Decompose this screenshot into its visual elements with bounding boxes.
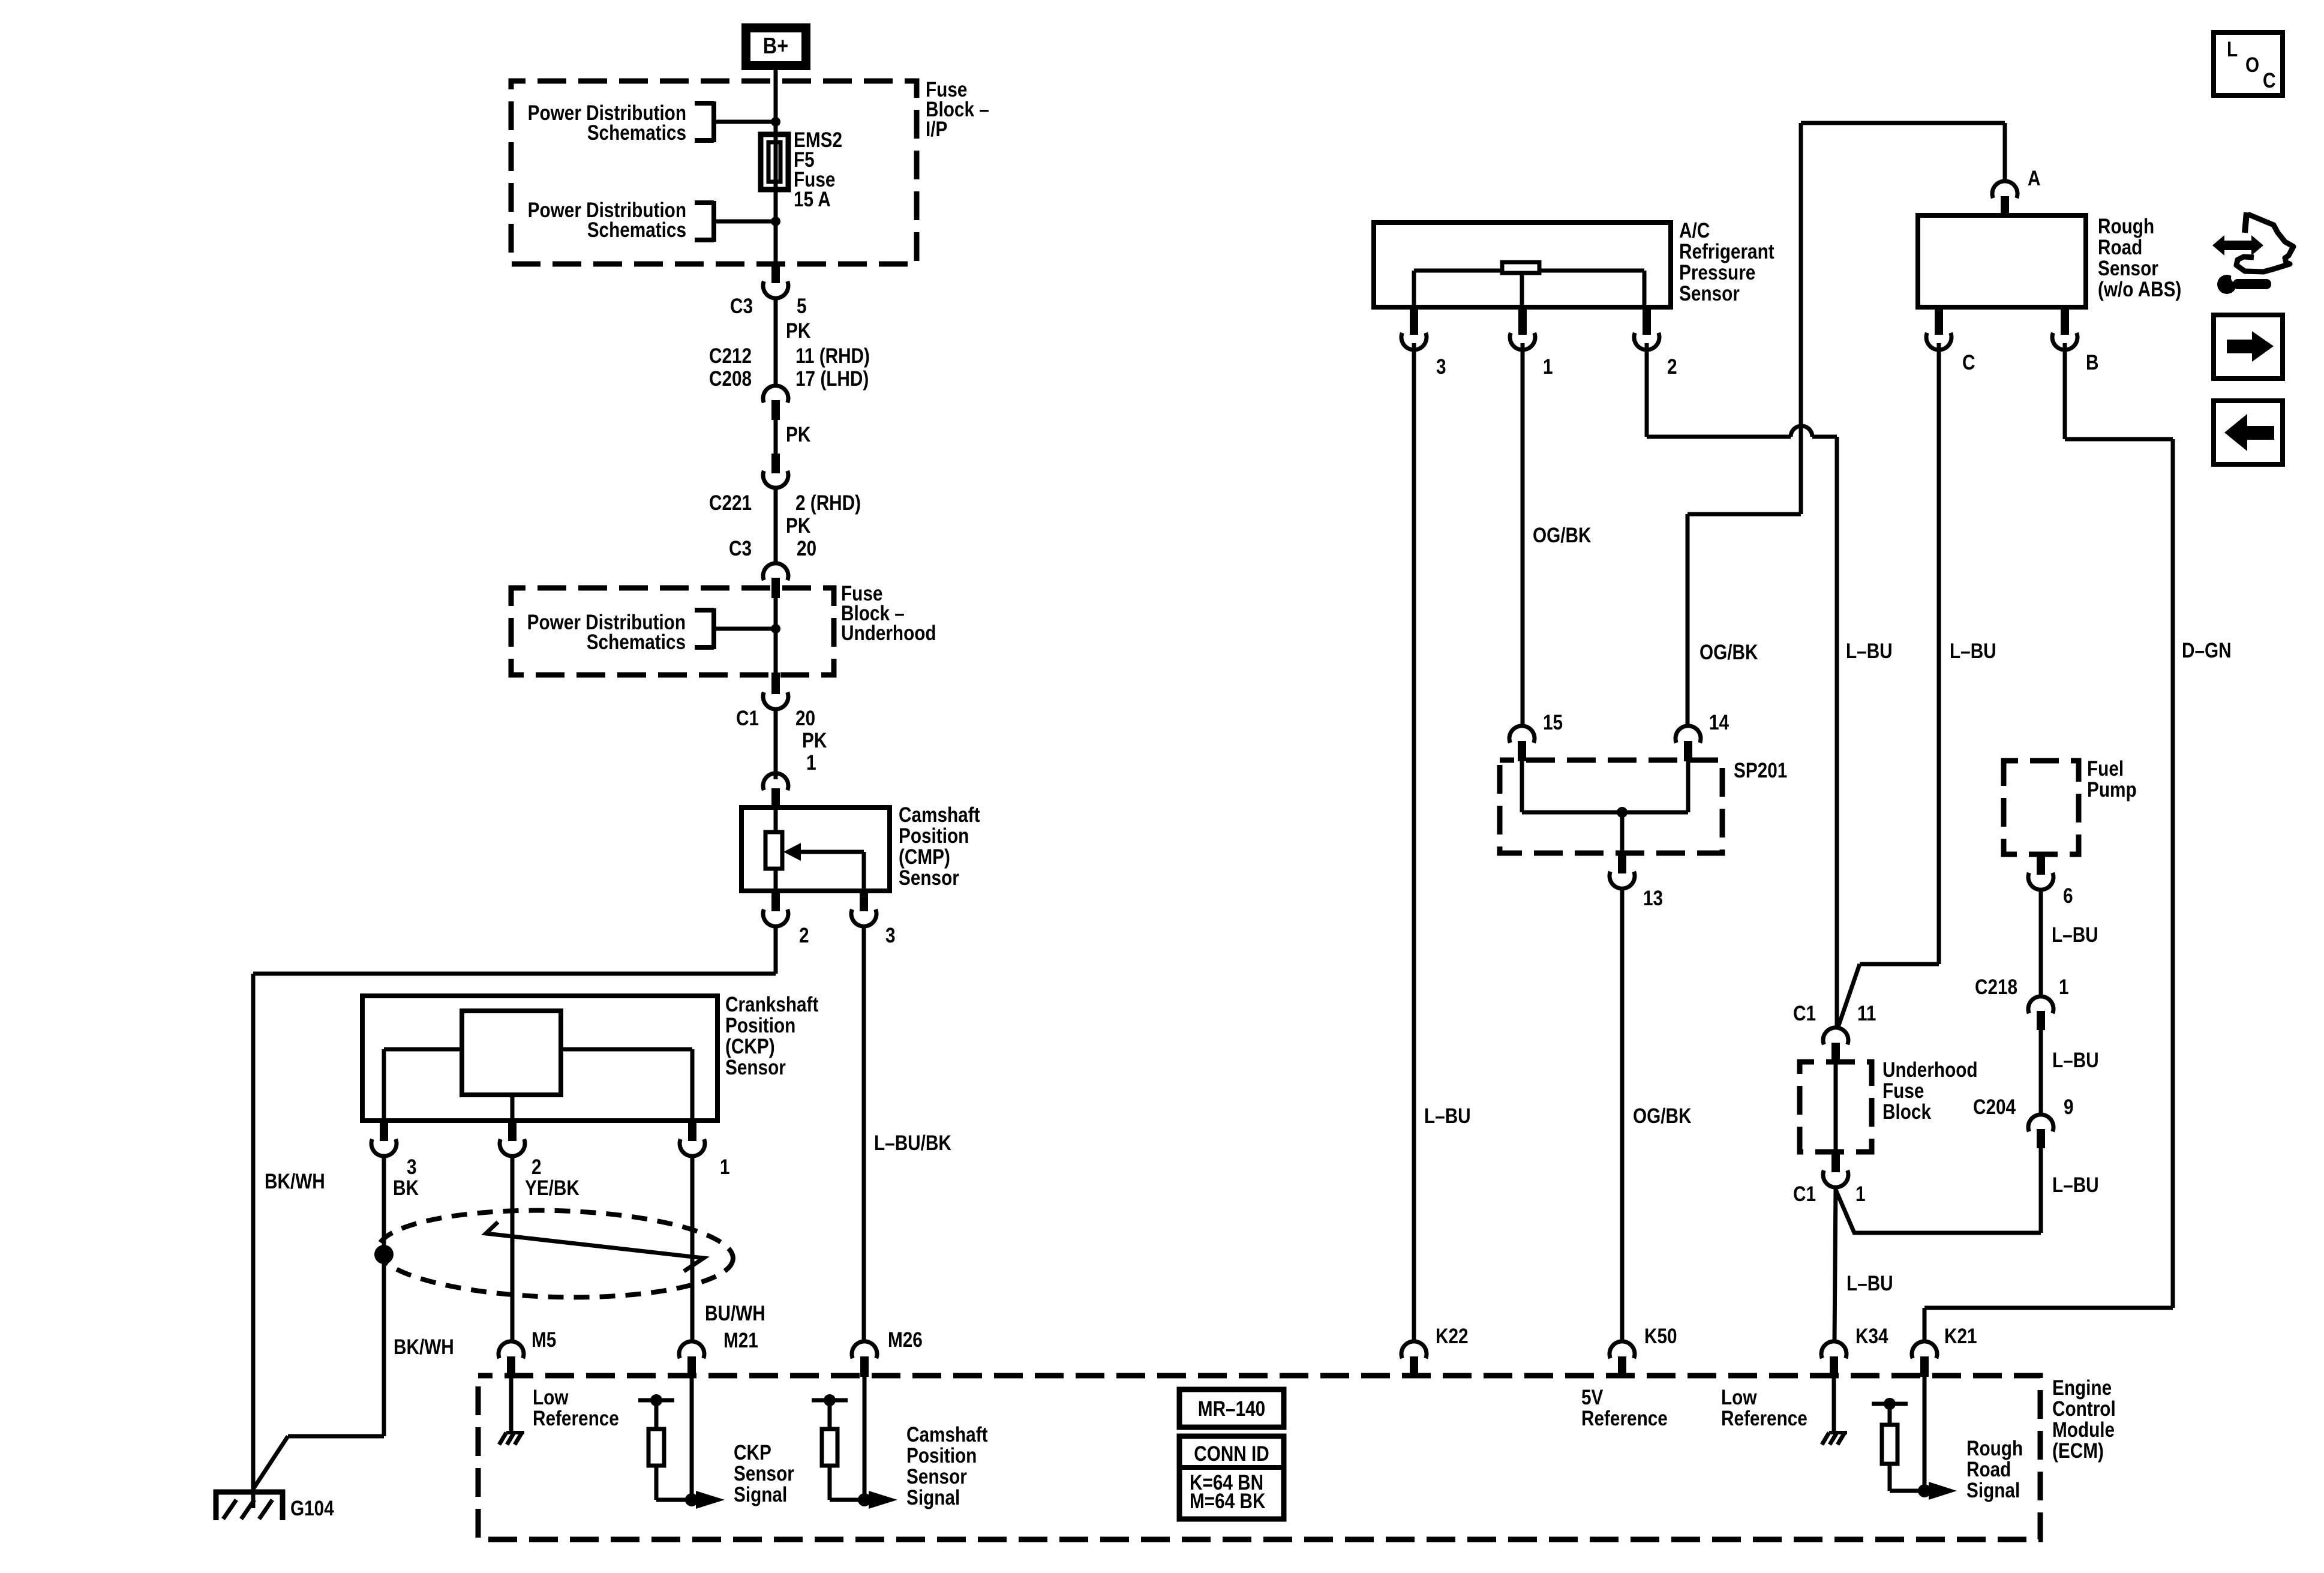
- svg-text:Pump: Pump: [2087, 778, 2137, 801]
- svg-text:Road: Road: [2098, 236, 2142, 259]
- svg-text:Fuse: Fuse: [1882, 1079, 1924, 1103]
- svg-text:G104: G104: [290, 1497, 334, 1520]
- svg-text:1: 1: [806, 751, 816, 775]
- svg-text:K21: K21: [1944, 1325, 1977, 1348]
- svg-text:B: B: [2086, 351, 2098, 374]
- svg-text:Rough: Rough: [1966, 1437, 2023, 1460]
- svg-text:Signal: Signal: [1966, 1479, 2020, 1502]
- svg-text:Refrigerant: Refrigerant: [1679, 240, 1774, 263]
- svg-text:Schematics: Schematics: [587, 218, 686, 242]
- svg-text:O: O: [2245, 53, 2259, 77]
- svg-text:D–GN: D–GN: [2182, 639, 2232, 662]
- svg-text:PK: PK: [802, 729, 827, 752]
- svg-text:Sensor: Sensor: [2098, 257, 2158, 280]
- svg-text:Sensor: Sensor: [899, 866, 959, 890]
- svg-text:Fuel: Fuel: [2087, 757, 2124, 781]
- svg-text:Module: Module: [2052, 1418, 2115, 1442]
- svg-text:C1: C1: [1793, 1182, 1816, 1206]
- svg-text:A/C: A/C: [1679, 219, 1710, 242]
- svg-text:L–BU/BK: L–BU/BK: [874, 1131, 951, 1155]
- svg-text:Road: Road: [1966, 1458, 2011, 1481]
- svg-text:L–BU: L–BU: [2052, 1049, 2099, 1072]
- svg-text:L–BU: L–BU: [2052, 923, 2098, 947]
- svg-text:Schematics: Schematics: [587, 121, 686, 145]
- svg-text:L–BU: L–BU: [1846, 1272, 1893, 1295]
- svg-text:C1: C1: [1793, 1002, 1816, 1025]
- svg-text:11 (RHD): 11 (RHD): [795, 344, 870, 368]
- svg-text:2: 2: [1667, 355, 1677, 379]
- svg-text:9: 9: [2064, 1095, 2074, 1119]
- svg-text:5: 5: [797, 295, 807, 318]
- svg-text:2: 2: [799, 924, 809, 947]
- svg-text:C3: C3: [730, 295, 753, 318]
- svg-text:Crankshaft: Crankshaft: [725, 993, 819, 1016]
- svg-text:Reference: Reference: [1581, 1407, 1668, 1430]
- svg-text:Underhood: Underhood: [1882, 1058, 1978, 1082]
- svg-text:K50: K50: [1644, 1325, 1677, 1348]
- svg-text:L: L: [2227, 38, 2238, 61]
- svg-text:1: 1: [720, 1155, 730, 1179]
- svg-text:Reference: Reference: [533, 1407, 619, 1430]
- svg-text:BK/WH: BK/WH: [265, 1170, 325, 1193]
- svg-text:MR–140: MR–140: [1198, 1397, 1265, 1421]
- svg-text:M5: M5: [532, 1328, 556, 1352]
- svg-text:Low: Low: [1721, 1386, 1757, 1409]
- svg-text:C212: C212: [709, 344, 752, 368]
- svg-text:I/P: I/P: [926, 118, 947, 141]
- svg-text:L–BU: L–BU: [1424, 1104, 1471, 1128]
- svg-text:B+: B+: [763, 34, 788, 59]
- svg-text:OG/BK: OG/BK: [1533, 524, 1592, 547]
- svg-text:Position: Position: [725, 1014, 795, 1037]
- svg-text:C218: C218: [1975, 975, 2017, 999]
- svg-text:C1: C1: [736, 707, 759, 730]
- svg-text:PK: PK: [786, 319, 811, 343]
- svg-text:20: 20: [797, 537, 816, 560]
- svg-text:Rough: Rough: [2098, 215, 2154, 238]
- svg-text:Signal: Signal: [734, 1483, 787, 1506]
- svg-text:OG/BK: OG/BK: [1700, 641, 1758, 664]
- svg-text:Sensor: Sensor: [1679, 282, 1740, 305]
- svg-text:C: C: [1962, 351, 1975, 374]
- svg-text:3: 3: [1436, 355, 1446, 379]
- svg-text:1: 1: [2059, 975, 2069, 999]
- svg-text:20: 20: [795, 707, 815, 730]
- svg-text:Position: Position: [906, 1444, 977, 1467]
- svg-text:Sensor: Sensor: [906, 1465, 967, 1488]
- svg-text:Control: Control: [2052, 1397, 2116, 1421]
- svg-text:Low: Low: [533, 1386, 569, 1409]
- svg-text:L–BU: L–BU: [2052, 1173, 2099, 1197]
- svg-text:C204: C204: [1973, 1095, 2016, 1119]
- svg-text:13: 13: [1643, 887, 1663, 910]
- svg-text:Engine: Engine: [2052, 1376, 2112, 1400]
- svg-text:Signal: Signal: [906, 1486, 960, 1509]
- svg-text:(ECM): (ECM): [2052, 1439, 2104, 1463]
- svg-text:C3: C3: [729, 537, 752, 560]
- svg-text:Camshaft: Camshaft: [906, 1423, 988, 1446]
- svg-text:PK: PK: [786, 514, 811, 538]
- svg-text:C: C: [2263, 69, 2275, 92]
- svg-text:BK/WH: BK/WH: [394, 1335, 454, 1359]
- svg-text:YE/BK: YE/BK: [525, 1176, 580, 1200]
- svg-text:Block: Block: [1882, 1100, 1932, 1124]
- svg-text:2: 2: [532, 1155, 542, 1179]
- svg-text:3: 3: [885, 924, 896, 947]
- svg-text:Pressure: Pressure: [1679, 261, 1755, 284]
- svg-text:15 A: 15 A: [794, 188, 831, 211]
- svg-text:CKP: CKP: [734, 1441, 771, 1464]
- svg-text:M21: M21: [723, 1329, 758, 1352]
- svg-text:3: 3: [407, 1155, 417, 1179]
- svg-text:Sensor: Sensor: [725, 1056, 786, 1079]
- svg-text:Sensor: Sensor: [734, 1462, 794, 1485]
- svg-text:6: 6: [2063, 884, 2073, 908]
- svg-text:17 (LHD): 17 (LHD): [795, 367, 869, 391]
- svg-text:(w/o ABS): (w/o ABS): [2098, 278, 2181, 301]
- svg-text:1: 1: [1855, 1182, 1866, 1206]
- svg-text:C208: C208: [709, 367, 752, 391]
- svg-text:11: 11: [1857, 1002, 1876, 1025]
- svg-text:OG/BK: OG/BK: [1633, 1104, 1692, 1128]
- svg-text:M=64 BK: M=64 BK: [1190, 1490, 1266, 1513]
- svg-text:Camshaft: Camshaft: [899, 803, 980, 827]
- svg-text:2 (RHD): 2 (RHD): [795, 491, 861, 515]
- svg-text:K22: K22: [1436, 1325, 1469, 1348]
- svg-text:15: 15: [1543, 711, 1563, 734]
- svg-text:A: A: [2028, 167, 2040, 190]
- svg-text:C221: C221: [709, 491, 752, 515]
- svg-text:BU/WH: BU/WH: [705, 1302, 765, 1325]
- svg-text:Position: Position: [899, 824, 969, 848]
- svg-text:14: 14: [1709, 711, 1729, 734]
- svg-text:(CKP): (CKP): [725, 1035, 775, 1058]
- svg-text:CONN ID: CONN ID: [1194, 1442, 1269, 1466]
- svg-text:Schematics: Schematics: [587, 631, 686, 654]
- svg-text:PK: PK: [786, 423, 811, 446]
- svg-text:1: 1: [1543, 355, 1553, 379]
- svg-text:Underhood: Underhood: [841, 622, 936, 645]
- svg-text:5V: 5V: [1581, 1386, 1604, 1409]
- svg-text:L–BU: L–BU: [1846, 640, 1893, 663]
- svg-text:(CMP): (CMP): [899, 845, 950, 869]
- svg-text:Reference: Reference: [1721, 1407, 1807, 1430]
- svg-text:L–BU: L–BU: [1950, 640, 1996, 663]
- svg-text:K34: K34: [1855, 1325, 1888, 1348]
- svg-text:BK: BK: [393, 1176, 419, 1200]
- svg-text:SP201: SP201: [1734, 759, 1787, 782]
- svg-text:M26: M26: [888, 1328, 923, 1352]
